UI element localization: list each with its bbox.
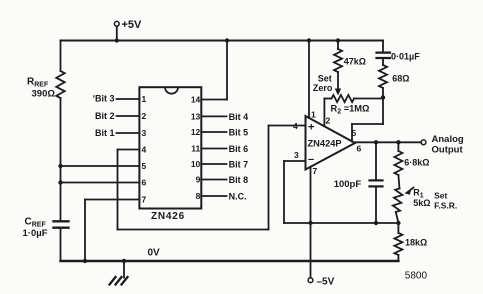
svg-text:2: 2 [326, 116, 331, 126]
svg-text:6: 6 [142, 178, 147, 188]
svg-text:Output: Output [432, 145, 464, 156]
svg-text:N.C.: N.C. [229, 192, 247, 202]
svg-text:5kΩ: 5kΩ [413, 198, 430, 208]
svg-text:Zero: Zero [313, 83, 333, 93]
svg-text:+: + [308, 122, 314, 134]
svg-text:Set: Set [318, 74, 332, 84]
svg-text:ʼBit 3: ʼBit 3 [92, 94, 114, 104]
svg-text:6: 6 [357, 144, 362, 154]
svg-text:Bit 4: Bit 4 [229, 112, 249, 122]
svg-text:ZN424P: ZN424P [308, 139, 342, 149]
svg-text:7: 7 [142, 195, 147, 205]
svg-text:68Ω: 68Ω [392, 74, 409, 84]
svg-text:14: 14 [191, 95, 201, 105]
svg-text:11: 11 [191, 144, 200, 154]
svg-text:5: 5 [142, 161, 147, 171]
svg-text:13: 13 [191, 111, 201, 121]
svg-text:Set: Set [434, 191, 447, 201]
svg-text:10: 10 [191, 159, 201, 169]
svg-text:47kΩ: 47kΩ [344, 57, 366, 67]
svg-text:+5V: +5V [122, 19, 143, 31]
svg-text:Bit 7: Bit 7 [229, 160, 249, 170]
svg-text:–: – [308, 154, 314, 166]
svg-text:1: 1 [311, 110, 316, 120]
svg-text:390Ω: 390Ω [32, 89, 56, 100]
svg-text:1: 1 [142, 94, 147, 104]
svg-text:Bit 2: Bit 2 [95, 111, 115, 121]
svg-text:5: 5 [352, 128, 357, 138]
svg-text:ZN426: ZN426 [151, 211, 185, 222]
svg-text:Bit 1: Bit 1 [95, 128, 115, 138]
svg-text:Bit 5: Bit 5 [229, 128, 249, 138]
svg-text:2: 2 [142, 111, 147, 121]
svg-text:6·8kΩ: 6·8kΩ [404, 158, 429, 168]
svg-text:5800: 5800 [405, 271, 428, 282]
svg-text:3: 3 [142, 128, 147, 138]
svg-text:Bit 6: Bit 6 [229, 144, 249, 154]
svg-text:1·0µF: 1·0µF [23, 228, 48, 239]
svg-text:4: 4 [142, 145, 147, 155]
svg-text:0·01µF: 0·01µF [391, 52, 420, 62]
svg-text:12: 12 [191, 127, 201, 137]
svg-text:100pF: 100pF [334, 179, 362, 190]
svg-text:Analog: Analog [432, 134, 464, 145]
svg-text:9: 9 [196, 175, 201, 185]
svg-text:8: 8 [196, 191, 201, 201]
svg-text:7: 7 [313, 166, 318, 176]
svg-text:3: 3 [294, 150, 299, 160]
svg-text:F.S.R.: F.S.R. [434, 201, 457, 211]
svg-text:–5V: –5V [317, 277, 335, 288]
svg-text:4: 4 [293, 121, 298, 131]
svg-text:Bit 8: Bit 8 [229, 175, 249, 185]
svg-text:18kΩ: 18kΩ [405, 238, 427, 248]
svg-text:0V: 0V [148, 248, 161, 259]
